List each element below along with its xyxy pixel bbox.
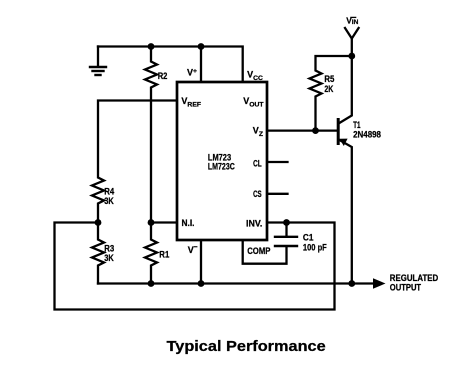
svg-text:V−: V− (188, 244, 198, 255)
svg-text:2K: 2K (324, 84, 333, 94)
svg-text:R1: R1 (159, 250, 169, 260)
svg-text:OUTPUT: OUTPUT (390, 282, 422, 292)
svg-text:LM723C: LM723C (208, 162, 235, 172)
svg-text:Typical Performance: Typical Performance (167, 339, 326, 355)
svg-text:VCC: VCC (247, 69, 263, 82)
svg-text:C1: C1 (303, 232, 314, 242)
svg-text:R3: R3 (104, 244, 114, 254)
svg-text:3K: 3K (104, 253, 114, 263)
svg-text:V+: V+ (187, 67, 197, 77)
svg-text:100 pF: 100 pF (303, 242, 327, 252)
svg-text:2N4898: 2N4898 (353, 130, 381, 140)
svg-text:CL: CL (253, 158, 262, 168)
svg-text:R2: R2 (158, 71, 168, 81)
svg-text:INV.: INV. (246, 218, 262, 228)
svg-text:COMP: COMP (247, 246, 270, 256)
svg-text:3K: 3K (104, 196, 114, 206)
svg-text:N.I.: N.I. (182, 218, 195, 228)
svg-text:CS: CS (253, 189, 262, 199)
svg-text:T1: T1 (353, 120, 360, 130)
svg-text:R5: R5 (324, 74, 334, 84)
